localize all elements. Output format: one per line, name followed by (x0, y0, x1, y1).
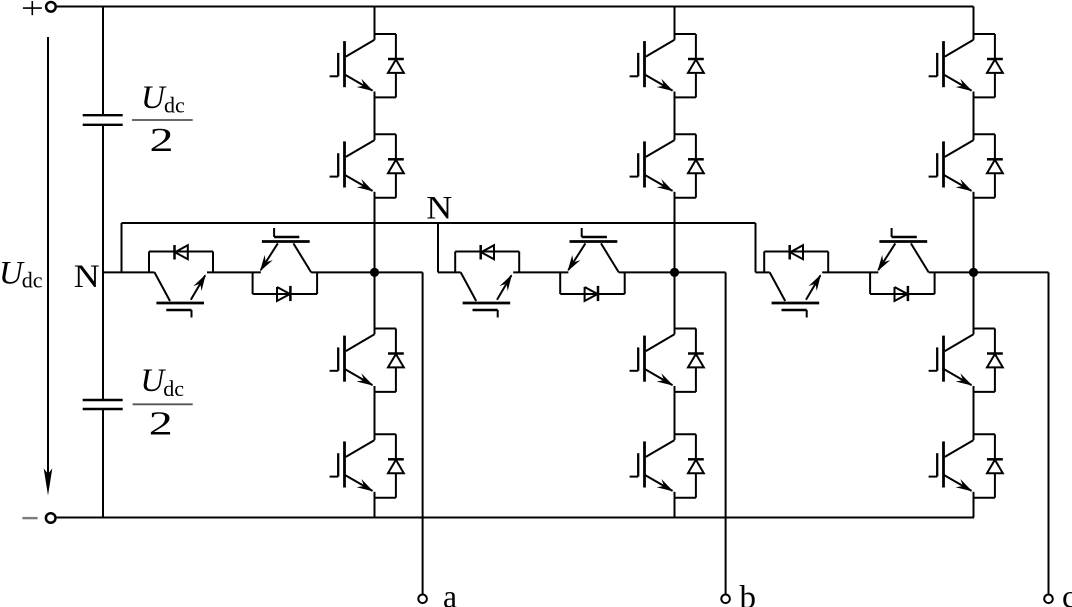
phase a leg wire (Q3 to Q4) (374, 386, 376, 440)
phase a leg wire (Q4 to bottom bus) (374, 492, 376, 518)
freewheel diode of Q4b (675, 434, 704, 497)
label Udc/2 (C2) (133, 363, 193, 443)
clamp rail wire b (mid) (513, 271, 568, 273)
freewheel diode of Q2a (375, 134, 404, 197)
clamp rail wire a (to midpoint) (311, 271, 374, 273)
clamp igbt Q5b (461, 272, 512, 317)
svg-text:N: N (426, 190, 452, 226)
freewheel diode of Q1c (974, 34, 1003, 97)
output terminal circle c (1044, 595, 1053, 604)
N drop wire phase c (755, 223, 757, 272)
output terminal circle b (721, 595, 730, 604)
phase a leg wire (Q1 to Q2) (374, 92, 376, 141)
svg-text:2: 2 (150, 122, 174, 159)
midpoint junction node phase a (370, 268, 379, 277)
clamp rail wire a (left) (103, 271, 155, 273)
svg-text:b: b (740, 580, 757, 607)
phase b leg wire (Q2 to midpoint) (674, 192, 676, 273)
phase c leg wire (Q2 to midpoint) (973, 192, 975, 273)
diode of clamp Q5b (481, 245, 494, 260)
igbt Q4c (929, 440, 974, 491)
svg-text:dc: dc (163, 376, 184, 401)
igbt Q3c (929, 334, 974, 385)
phase b leg wire (Q3 to Q4) (674, 386, 676, 440)
node N label (top) (426, 190, 452, 226)
phase a leg wire (midpoint to Q3) (374, 272, 376, 334)
igbt Q4a (330, 440, 375, 491)
negative terminal circle (46, 513, 56, 523)
phase c leg wire (bus to Q1) (973, 7, 975, 40)
N drop wire phase b (437, 223, 439, 272)
Udc arrow (44, 37, 53, 496)
freewheel diode of Q4a (375, 434, 404, 497)
clamp igbt Q5a (155, 272, 206, 317)
minus sign (22, 517, 37, 519)
freewheel diode of Q3c (974, 329, 1003, 392)
N bus wire (122, 222, 756, 224)
label Udc/2 (C1) (132, 80, 193, 159)
phase a leg wire (Q2 to midpoint) (374, 192, 376, 273)
left DC rail wire lower (102, 409, 104, 518)
output line wire phase b (725, 272, 727, 594)
svg-text:c: c (1062, 580, 1072, 607)
output stub wire phase b (675, 271, 726, 273)
phase b leg wire (Q4 to bottom bus) (674, 492, 676, 518)
clamp diode path of Q5c (764, 252, 828, 273)
diode of clamp Q6a (277, 286, 290, 301)
freewheel diode of Q2c (974, 134, 1003, 197)
clamp igbt Q5c (770, 272, 821, 317)
clamp igbt Q6a (260, 228, 311, 272)
igbt Q1a (330, 40, 375, 91)
clamp diode path of Q6c (870, 272, 935, 294)
phase c leg wire (Q4 to bottom bus) (973, 492, 975, 518)
freewheel diode of Q3a (375, 329, 404, 392)
svg-text:dc: dc (164, 92, 185, 117)
svg-text:a: a (443, 579, 457, 607)
top DC bus wire (56, 6, 974, 8)
clamp rail wire b (left) (438, 271, 461, 273)
output terminal circle a (418, 595, 427, 604)
igbt Q1c (929, 40, 974, 91)
clamp diode path of Q6b (560, 272, 625, 294)
clamp igbt Q6c (877, 228, 928, 272)
freewheel diode of Q2b (675, 134, 704, 197)
diode of clamp Q6c (895, 286, 908, 301)
left DC rail wire upper (102, 7, 104, 116)
left DC rail wire middle (102, 125, 104, 400)
label a (443, 579, 457, 607)
igbt Q4b (630, 440, 675, 491)
clamp diode path of Q5b (455, 252, 519, 273)
igbt Q2b (630, 140, 675, 191)
clamp diode path of Q5a (149, 252, 213, 273)
diode of clamp Q5a (175, 245, 188, 260)
clamp rail wire b (to midpoint) (619, 271, 675, 273)
phase b leg wire (bus to Q1) (674, 7, 676, 40)
clamp rail wire a (mid) (207, 271, 261, 273)
output line wire phase c (1048, 272, 1050, 594)
label c (1062, 580, 1072, 607)
phase b leg wire (midpoint to Q3) (674, 272, 676, 334)
svg-text:2: 2 (149, 406, 173, 443)
node N label (left) (74, 259, 100, 295)
phase c leg wire (midpoint to Q3) (973, 272, 975, 334)
freewheel diode of Q3b (675, 329, 704, 392)
igbt Q3b (630, 334, 675, 385)
diode of clamp Q5c (790, 245, 803, 260)
midpoint junction node phase b (670, 268, 679, 277)
freewheel diode of Q4c (974, 434, 1003, 497)
clamp rail wire c (to midpoint) (929, 271, 974, 273)
output stub wire phase c (974, 271, 1049, 273)
clamp rail wire c (mid) (822, 271, 878, 273)
positive terminal circle (46, 2, 56, 12)
output stub wire phase a (375, 271, 423, 273)
capacitor C2 (83, 400, 123, 409)
label b (740, 580, 757, 607)
diode of clamp Q6b (585, 286, 598, 301)
svg-text:N: N (74, 259, 100, 295)
N drop wire phase a (121, 223, 123, 272)
phase c leg wire (Q1 to Q2) (973, 92, 975, 141)
output line wire phase a (422, 272, 424, 594)
igbt Q2c (929, 140, 974, 191)
svg-text:dc: dc (22, 268, 43, 293)
igbt Q3a (330, 334, 375, 385)
clamp igbt Q6b (568, 228, 619, 272)
midpoint junction node phase c (969, 268, 978, 277)
igbt Q1b (630, 40, 675, 91)
phase b leg wire (Q1 to Q2) (674, 92, 676, 141)
freewheel diode of Q1b (675, 34, 704, 97)
clamp diode path of Q6a (253, 272, 318, 294)
freewheel diode of Q1a (375, 34, 404, 97)
label Udc (left) (0, 256, 43, 293)
phase c leg wire (Q3 to Q4) (973, 386, 975, 440)
igbt Q2a (330, 140, 375, 191)
bottom DC bus wire (56, 517, 974, 519)
phase a leg wire (bus to Q1) (374, 7, 376, 40)
plus sign (23, 1, 42, 15)
clamp rail wire c (left) (756, 271, 770, 273)
capacitor C1 (83, 115, 123, 125)
